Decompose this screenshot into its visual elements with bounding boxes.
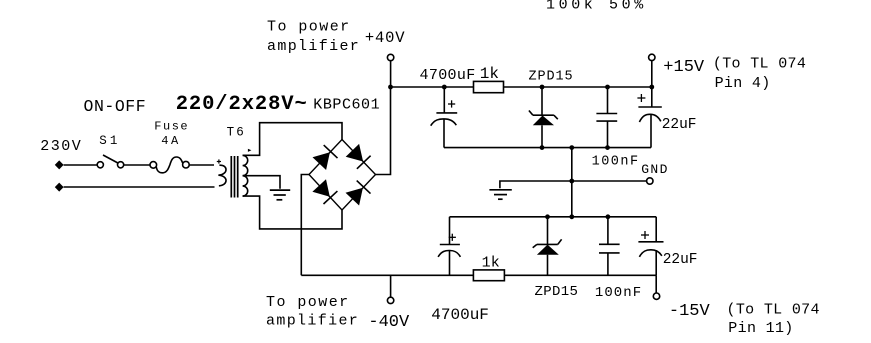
- resistor R1 1k (top): [474, 81, 504, 92]
- wire secondary center tap to ground: [243, 176, 280, 189]
- svg-text:GND: GND: [641, 162, 669, 177]
- junction 4700uF top: [442, 85, 447, 90]
- node GND terminal: [647, 178, 653, 184]
- transformer T6 primary polarity dot: [217, 159, 221, 163]
- zener diode ZPD15 (top): [529, 87, 558, 148]
- wire 230V neutral to transformer primary: [64, 186, 215, 188]
- junction zener top: [540, 85, 545, 90]
- junction zener bottom (top circuit): [540, 145, 545, 150]
- junction ground node: [569, 179, 574, 184]
- junction 100nF top (bottom circuit): [606, 214, 611, 219]
- svg-text:ZPD15: ZPD15: [529, 70, 574, 85]
- svg-text:To power: To power: [266, 294, 350, 311]
- svg-text:Pin 4): Pin 4): [715, 75, 771, 92]
- svg-text:22uF: 22uF: [663, 252, 698, 268]
- svg-text:4A: 4A: [161, 134, 181, 148]
- svg-text:100nF: 100nF: [592, 154, 640, 169]
- diode D3 (left node to bottom node): [312, 179, 337, 204]
- bridge rectifier KBPC601 diamond: [309, 140, 376, 211]
- wire switch to fuse: [124, 164, 150, 166]
- wire 230V live to switch: [64, 164, 98, 166]
- wire 0V rail of -15V regulator: [450, 216, 657, 218]
- svg-text:ZPD15: ZPD15: [535, 284, 579, 300]
- svg-text:100k 50%: 100k 50%: [546, 0, 647, 14]
- wire +40V rail to resistor: [391, 86, 474, 88]
- wire 0V rail of +15V regulator: [444, 147, 651, 149]
- junction 100nF bottom (top circuit): [605, 145, 610, 150]
- svg-text:230V: 230V: [40, 138, 82, 155]
- svg-text:1k: 1k: [482, 255, 500, 272]
- capacitor C3 22uF (top): [637, 87, 661, 148]
- svg-text:4700uF: 4700uF: [431, 306, 489, 324]
- svg-text:To power: To power: [267, 19, 351, 36]
- capacitor C5 100nF (bottom): [599, 217, 620, 275]
- capacitor C4 4700uF (bottom): [438, 217, 460, 275]
- junction zener top (bottom circuit): [545, 214, 550, 219]
- wire center ground link: [571, 148, 573, 217]
- node -15V terminal: [653, 275, 659, 299]
- capacitor C2 100nF (top): [596, 87, 617, 148]
- wire ground node to GND terminal: [572, 180, 647, 182]
- svg-text:Fuse: Fuse: [154, 120, 189, 134]
- wire bridge minus node down to -40V rail: [301, 175, 309, 276]
- capacitor C1 4700uF (top): [431, 87, 458, 148]
- zener diode ZPD15 (bottom): [533, 217, 562, 275]
- svg-text:ON-OFF: ON-OFF: [84, 97, 147, 116]
- junction +40V rail at terminal: [388, 85, 393, 90]
- svg-text:(To TL 074: (To TL 074: [713, 56, 806, 73]
- diode D1 (left node to top node): [313, 145, 338, 170]
- svg-text:+15V: +15V: [663, 58, 705, 77]
- node +40V terminal: [387, 54, 393, 87]
- transformer T6 primary winding: [218, 165, 226, 186]
- junction center tap wire (bottom circuit): [569, 214, 574, 219]
- wire fuse to transformer primary: [189, 164, 214, 166]
- svg-text:amplifier: amplifier: [266, 313, 359, 330]
- junction 100nF top: [605, 85, 610, 90]
- node 230V input terminal bottom (diamond): [55, 183, 64, 192]
- fuse F1 4A: [150, 157, 189, 173]
- svg-text:amplifier: amplifier: [267, 38, 360, 55]
- svg-text:Pin 11): Pin 11): [728, 320, 793, 337]
- svg-text:+40V: +40V: [365, 29, 405, 47]
- node +15V terminal: [649, 54, 655, 87]
- svg-text:(To TL 074: (To TL 074: [727, 302, 820, 319]
- svg-text:-15V: -15V: [669, 302, 711, 321]
- junction center tap wire (top circuit): [569, 145, 574, 150]
- svg-text:100nF: 100nF: [595, 285, 642, 301]
- transformer T6 secondary polarity mark: [248, 149, 252, 152]
- svg-text:S1: S1: [99, 134, 120, 148]
- capacitor C6 22uF (bottom): [638, 217, 663, 275]
- wire secondary bottom to bridge AC bottom: [243, 196, 342, 229]
- resistor R2 1k (bottom): [473, 270, 504, 281]
- transformer T6 core: [231, 156, 237, 198]
- wire -40V rail left of resistor: [301, 274, 473, 276]
- diode D2 (top node to right node): [346, 144, 371, 169]
- wire secondary top to bridge AC top: [243, 123, 342, 156]
- ground main supply: [489, 181, 571, 199]
- svg-text:KBPC601: KBPC601: [313, 97, 380, 114]
- svg-text:T6: T6: [227, 126, 246, 140]
- node 230V input terminal top (diamond): [55, 160, 64, 169]
- junction 22uF top: [649, 85, 654, 90]
- switch S1: [97, 155, 123, 168]
- wire -15V rail right of resistor: [504, 274, 656, 276]
- wire +15V rail: [504, 86, 652, 88]
- svg-text:-40V: -40V: [368, 313, 410, 332]
- transformer T6 secondary winding: [243, 155, 248, 196]
- svg-text:4700uF: 4700uF: [420, 67, 476, 84]
- diode D4 (bottom node to right node): [346, 181, 371, 206]
- svg-text:220/2x28V~: 220/2x28V~: [176, 93, 308, 116]
- wire bridge plus node up to +40V rail: [376, 87, 391, 175]
- svg-text:22uF: 22uF: [662, 117, 697, 133]
- svg-text:1k: 1k: [480, 65, 499, 83]
- node -40V terminal: [387, 275, 393, 303]
- ground transformer center tap: [270, 190, 290, 200]
